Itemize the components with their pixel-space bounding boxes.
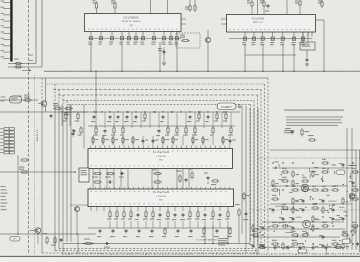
node IC4 pin numbers top row — [91, 150, 93, 153]
resistor R202 above IC2 — [114, 1, 116, 3]
op-amp IC5 deflection box — [88, 189, 234, 207]
resistor R610 row between — [93, 173, 95, 175]
node bottom right extra wires — [285, 232, 293, 234]
resistor R715 under IC5 — [197, 210, 199, 212]
resistor R88 row y231 — [203, 227, 205, 229]
wire right rail x356 — [355, 150, 357, 250]
capacitor C9273208 — [272, 208, 274, 210]
resistor R711 under IC5 — [167, 210, 169, 212]
capacitor C9333208 — [332, 208, 334, 210]
node shield box 3 bottom edge — [59, 248, 253, 250]
resistor R9v293181 — [292, 179, 294, 181]
resistor R50 row2 — [95, 126, 97, 128]
resistor R101 — [23, 99, 25, 101]
resistor R73 under IC5 — [109, 210, 111, 212]
wire bus y112 over IC4 — [60, 111, 240, 113]
capacitor C45 above IC4 — [135, 115, 137, 117]
wire arrow stub y70 — [22, 70, 31, 72]
node note text body — [286, 117, 343, 118]
node shield box 2 top edge — [47, 83, 265, 85]
wire rail x242 — [241, 106, 243, 234]
resistor R212 — [181, 40, 183, 42]
node shield box 6 right edge — [250, 105, 252, 243]
capacitor C120 — [60, 238, 62, 240]
wire ICB columns to bus y243 — [204, 226, 206, 244]
resistor R9303181 — [301, 180, 303, 182]
resistor R714 under IC5 — [189, 210, 191, 212]
wire right rail x359 — [358, 150, 360, 252]
capacitor C9283217 — [282, 217, 284, 219]
wire IC3 left stubs — [221, 18, 227, 20]
wire above IC3 links — [251, 8, 253, 15]
capacitor C35 under IC3 — [292, 37, 295, 40]
node shield box 1 top edge — [33, 77, 268, 79]
capacitor C36 under IC3 — [301, 37, 304, 40]
node shield box 3 left edge lower — [58, 106, 60, 249]
resistor R1a on y63 — [14, 63, 16, 65]
connector CN1 edge bar — [10, 0, 12, 62]
wire left bus y78 full — [0, 77, 33, 79]
resistor R980 right edge — [354, 226, 356, 228]
node shield box 2 right edge — [264, 84, 266, 251]
node shield box 3 top edge — [53, 89, 261, 91]
wire CN2 tail — [17, 155, 19, 234]
capacitor Cz300 — [299, 246, 301, 248]
wire IC3 pin columns to bus — [244, 44, 246, 71]
capacitor C9263226 — [262, 226, 264, 228]
capacitor C130 above CN2 right — [72, 132, 74, 134]
wire rail x254 — [253, 108, 255, 248]
capacitor C87 row y231 — [190, 229, 192, 231]
capacitor C57 row2 — [158, 129, 160, 131]
resistor R9v313217 — [312, 215, 314, 217]
resistor R9v253226 — [252, 224, 254, 226]
capacitor C81 row y231 — [112, 229, 114, 231]
resistor R9323226 — [321, 225, 323, 227]
capacitor C9343217 — [342, 217, 344, 219]
resistor R511 row2 — [194, 126, 196, 128]
resistor R9313208 — [311, 207, 313, 209]
wire IC3 bottom pins — [244, 32, 246, 37]
node delay line DL1 — [10, 96, 22, 103]
connector CN1 pin 6 — [3, 33, 10, 35]
capacitor C43 above IC4 — [117, 115, 119, 117]
capacitor Cz326 — [325, 246, 327, 248]
capacitor C420 — [73, 129, 75, 131]
resistor R6r32 row3 — [112, 136, 114, 138]
resistor R1b on y67 — [14, 66, 16, 68]
capacitor C20 under IC2 — [89, 37, 92, 40]
resistor R421 left of IC4 — [77, 112, 79, 114]
capacitor C27 under IC2 — [152, 37, 155, 40]
capacitor Cz288 — [287, 246, 289, 248]
wire bottom bus y234 — [0, 233, 96, 235]
wire horiz y67 from CN1 — [8, 66, 42, 68]
wire IC4-IC5 pin columns — [92, 169, 94, 190]
resistor R120 — [46, 236, 48, 238]
capacitor C9253244 — [252, 244, 254, 246]
resistor R9273199 — [271, 198, 273, 200]
capacitor C615 — [185, 178, 187, 180]
node pill label ACT filter — [217, 103, 236, 110]
transistor Q902 — [303, 220, 311, 228]
capacitor C716 under IC5 — [204, 213, 206, 215]
resistor R78 under IC5 — [145, 210, 147, 212]
node shield box 1 bottom edge — [42, 252, 260, 254]
wire rail x258 — [257, 108, 259, 252]
node shield box 2 bottom edge — [55, 250, 257, 252]
wire bus y126 over IC4 — [88, 125, 235, 127]
node shield box 6 left edge lower — [70, 106, 72, 242]
resistor R53 row2 — [122, 126, 124, 128]
wire IC2 ladder link y38 — [88, 37, 181, 39]
capacitor C9333217 — [332, 217, 334, 219]
node shield box 1 left edge upper — [41, 78, 43, 106]
resistor R9v313172 — [312, 170, 314, 172]
resistor R9333190 — [331, 189, 333, 191]
node small box left of IC4 — [79, 168, 89, 182]
op-amp IC2 main video IF box — [85, 14, 182, 32]
wire IC5 top pin ticks — [90, 187, 92, 189]
capacitor C80 row y231 — [99, 229, 101, 231]
wire chain x239 — [238, 217, 240, 244]
wire mid right h y150 — [270, 149, 360, 151]
node shield box 5 left edge upper — [66, 101, 68, 107]
resistor R614 — [153, 181, 155, 183]
resistor R301 above IC3 — [251, 0, 253, 2]
wire IC2 right stubs — [181, 18, 186, 20]
resistor R210 between ICs — [189, 4, 191, 6]
wire Q201 collector — [207, 30, 209, 37]
wire IC2 bottom pins — [90, 32, 92, 37]
resistor R59 row2 — [176, 126, 178, 128]
capacitor C89 row y231 — [216, 229, 218, 231]
node corner labels — [29, 55, 33, 56]
resistor R9283208 — [281, 207, 283, 209]
wire dashed rail x28 — [28, 0, 30, 254]
capacitor Cz313 — [312, 246, 314, 248]
resistor R52 row2 — [113, 126, 115, 128]
node shield box 3 left edge upper — [58, 90, 60, 107]
connector CN1 pin 10 — [3, 57, 10, 59]
capacitor C9323235 — [322, 235, 324, 237]
connector CN1 pin 9 — [3, 51, 10, 53]
resistor R9273226 — [271, 225, 273, 227]
resistor R9283172 — [281, 171, 283, 173]
wire IC2 pin columns to bus — [90, 42, 92, 71]
resistor R6r30 row3 — [92, 136, 94, 138]
capacitor C150 on bus y243 — [105, 243, 107, 245]
resistor R9353199 — [351, 198, 353, 200]
resistor R9353226 — [351, 225, 353, 227]
wire riser x36 — [35, 0, 37, 64]
transistor Q102 — [35, 228, 41, 234]
wire Q102 legs — [37, 233, 39, 243]
capacitor C33 under IC3 — [271, 37, 274, 40]
wire bottom heavy rule y256 — [0, 255, 360, 257]
capacitor C712 under IC5 — [174, 213, 176, 215]
wire bottom bus y243 — [63, 243, 250, 245]
resistor R6r38 row3 — [172, 136, 174, 138]
node pill X903 — [298, 249, 307, 253]
resistor R130 — [20, 159, 22, 161]
wire rails to tick band — [245, 238, 247, 253]
capacitor C710 under IC5 — [159, 213, 161, 215]
wire Q101 collector up — [45, 78, 47, 101]
capacitor C910 mid right upper — [291, 130, 293, 132]
capacitor C101 — [50, 114, 52, 116]
capacitor C9323199 — [322, 199, 324, 201]
capacitor C23 under IC2 — [120, 37, 123, 40]
resistor R9v293208 — [292, 206, 294, 208]
resistor R9303235 — [301, 234, 303, 236]
resistor R9273244 — [271, 243, 273, 245]
capacitor C84 row y231 — [151, 229, 153, 231]
node shield box 1 right edge — [267, 78, 269, 253]
resistor R9v283244 — [282, 242, 284, 244]
resistor R911 mid right upper — [308, 139, 310, 141]
wire right rail x347 — [346, 128, 348, 250]
capacitor C9353181 — [352, 181, 354, 183]
wire right rail x352 — [351, 128, 353, 250]
node tick band above rule — [62, 253, 64, 254]
resistor R6r33 row3 — [122, 136, 124, 138]
node cluster mid right — [179, 174, 181, 176]
capacitor C32 under IC3 — [261, 37, 264, 40]
wire IC3 top pins — [257, 0, 259, 15]
capacitor C6r36 row3 — [152, 139, 154, 141]
capacitor C48 above IC4 — [162, 115, 164, 117]
wire Q101 emitter down — [45, 106, 47, 112]
resistor R6r311 row3 — [202, 136, 204, 138]
ground GND2 — [162, 62, 166, 64]
resistor R6r34 row3 — [132, 136, 134, 138]
resistor R79 under IC5 — [152, 210, 154, 212]
resistor R121 — [54, 236, 56, 238]
resistor R6r37 row3 — [162, 136, 164, 138]
wire dotted rail x34 lower — [34, 75, 36, 254]
capacitor C713 under IC5 — [182, 213, 184, 215]
resistor Rz262 — [258, 247, 260, 249]
resistor R641 right of IC5 — [243, 192, 245, 194]
node shield box 5 left edge lower — [66, 106, 68, 242]
capacitor C640 — [245, 212, 247, 214]
capacitor C25 under IC2 — [134, 37, 137, 40]
capacitor C718 under IC5 — [219, 213, 221, 215]
capacitor C24 under IC2 — [127, 37, 130, 40]
resistor R201 above IC2 — [96, 1, 98, 3]
node IC3 pin numbers row — [229, 28, 230, 31]
transistor Q101 — [41, 101, 47, 107]
resistor R330 top right — [321, 0, 323, 2]
node right network of IC3 — [300, 42, 315, 50]
wire riser x42 — [41, 0, 43, 67]
node labels under note — [284, 130, 294, 131]
node shield box 6 top edge — [68, 104, 251, 106]
connector CN1 pin 4 — [3, 20, 10, 22]
resistor R103 — [64, 108, 66, 110]
wire horiz y63 from CN1 — [8, 63, 36, 65]
node pill X901 — [336, 170, 345, 175]
capacitor C34 under IC3 — [281, 37, 284, 40]
resistor R414 above IC4 — [216, 112, 218, 114]
resistor R9v343199 — [342, 197, 344, 199]
resistor R75 under IC5 — [123, 210, 125, 212]
resistor R9313190 — [311, 189, 313, 191]
resistor R415 above IC4 — [225, 112, 227, 114]
resistor R6r313 row3 — [222, 136, 224, 138]
node IC2 pin numbers row — [88, 28, 89, 31]
capacitor C42 above IC4 — [109, 115, 111, 117]
wire right cluster bus y229 — [253, 228, 345, 230]
resistor R6r310 row3 — [192, 136, 194, 138]
resistor R9v273181 — [272, 179, 274, 181]
resistor R9323163 — [321, 162, 323, 164]
resistor R9253235 — [251, 234, 253, 236]
node shield box 6 left edge upper — [70, 105, 72, 107]
wire IC3 sub-bus y55 — [245, 54, 296, 56]
capacitor C44 above IC4 — [126, 115, 128, 117]
ground GND1 — [305, 63, 309, 65]
wire dotted h y210 right — [252, 209, 360, 211]
resistor R9323190 — [321, 189, 323, 191]
resistor R58 row2 — [167, 126, 169, 128]
wire stub y172 — [0, 171, 75, 173]
capacitor C9293226 — [292, 226, 294, 228]
transistor Q901 — [301, 184, 309, 192]
wire vert x62 cluster — [61, 105, 63, 127]
node shield box 4 top edge — [58, 94, 258, 96]
capacitor C77 under IC5 — [137, 213, 139, 215]
resistor R513 row2 — [212, 126, 214, 128]
wire vert x84 shield to IC4 — [83, 105, 85, 149]
resistor R510 row2 — [185, 126, 187, 128]
wire Q101 base — [38, 103, 41, 105]
wire IC4 top pin ticks — [90, 146, 92, 149]
connector CN2 terminal strip — [4, 128, 9, 131]
wire top stubs between ICs — [189, 0, 191, 6]
node IC4 pin numbers bottom row — [91, 164, 93, 167]
capacitor C82 row y231 — [125, 229, 127, 231]
capacitor C330 — [306, 58, 308, 60]
node IC5 pin numbers bottom row — [91, 202, 93, 205]
wire bus under IC5 y228 — [88, 227, 232, 229]
resistor R9353190 — [351, 189, 353, 191]
wire right cluster h-wires — [272, 167, 352, 169]
capacitor C210 under IC2 — [175, 37, 178, 40]
wire dotted h y158 right — [258, 157, 360, 159]
node pill X902 — [342, 239, 351, 244]
wire rail x250 — [249, 108, 251, 244]
resistor R150 on bus y243 — [84, 243, 86, 245]
resistor R303 above IC3 — [263, 0, 265, 2]
node IC2 sub chain x164 — [163, 47, 165, 62]
resistor R717 under IC5 — [212, 210, 214, 212]
node IC5 pin numbers top row — [91, 190, 93, 193]
resistor R85 row y231 — [164, 227, 166, 229]
capacitor C6r314 row3 — [229, 139, 231, 141]
resistor R302 above IC3 — [299, 0, 301, 1]
wire vert x96 bus to cluster — [95, 71, 97, 112]
wire rail x246 — [245, 106, 247, 238]
node left voltage label column — [1, 186, 6, 187]
resistor R9v343244 — [342, 242, 344, 244]
connector CN1 pin 7 — [3, 39, 10, 41]
capacitor C9303199 — [302, 199, 304, 201]
node dashed alignment box — [176, 33, 200, 48]
wire vert x70 cluster — [69, 105, 71, 127]
resistor R422 — [80, 126, 82, 128]
resistor R616 — [211, 180, 213, 182]
capacitor C51 row2 — [104, 129, 106, 131]
node shield box 5 top edge — [63, 100, 254, 102]
wire columns row3 to IC4 — [92, 136, 94, 145]
transistor Q201 — [205, 37, 210, 42]
wire IC5 bottom pin columns — [90, 207, 92, 212]
resistor R9v293199 — [292, 197, 294, 199]
wire stubs to tick band — [62, 244, 64, 254]
op-amp IC4 signal processor box — [88, 149, 233, 169]
capacitor C413 above IC4 — [207, 115, 209, 117]
resistor R9293190 — [291, 189, 293, 191]
wire left cluster links — [0, 111, 88, 113]
capacitor C29 under IC2 — [169, 37, 172, 40]
resistor R810 row y231 — [229, 227, 231, 229]
wire column links y112-126 — [95, 112, 97, 126]
node bottom margin strip — [0, 257, 360, 262]
capacitor C26 under IC2 — [141, 37, 144, 40]
transistor Q903 — [349, 193, 355, 199]
node shield box 4 right edge — [257, 95, 259, 246]
node pill label P101 — [10, 237, 20, 242]
capacitor C28 under IC2 — [162, 37, 165, 40]
node shield box 5 right edge — [253, 101, 255, 245]
capacitor C9323244 — [322, 244, 324, 246]
node shield box 4 left edge lower — [62, 106, 64, 242]
capacitor C9293217 — [292, 217, 294, 219]
connector CN1 pin 5 — [3, 26, 10, 28]
node shield box 1 left edge lower — [41, 106, 43, 253]
capacitor C22 under IC2 — [110, 37, 113, 40]
resistor R615 between ICs right — [191, 171, 193, 173]
wire main bus y71 — [44, 70, 360, 72]
resistor R9323172 — [321, 171, 323, 173]
resistor R102 — [53, 108, 55, 110]
resistor R76 under IC5 — [130, 210, 132, 212]
connector CN1 pin 2 — [3, 8, 10, 10]
capacitor C83 row y231 — [138, 229, 140, 231]
capacitor C30 under IC3 — [243, 37, 246, 40]
capacitor C301 above IC3 — [267, 4, 269, 6]
resistor R611 — [106, 173, 108, 175]
wire IC2 top pins — [96, 10, 98, 14]
resistor R9v293172 — [292, 170, 294, 172]
capacitor C611 — [108, 181, 110, 183]
resistor R9333244 — [331, 243, 333, 245]
op-amp IC3 chroma box — [227, 15, 316, 33]
node CN1 bottom labels — [1, 97, 6, 98]
resistor R9273190 — [271, 189, 273, 191]
resistor R719 under IC5 — [227, 210, 229, 212]
wire R302 to IC3 — [299, 7, 301, 15]
capacitor C6r35 row3 — [142, 139, 144, 141]
resistor R9293244 — [291, 243, 293, 245]
resistor R110 on y172 — [20, 171, 22, 173]
node note text heading — [284, 110, 344, 111]
resistor Rz338 — [334, 247, 336, 249]
resistor R9303190 — [301, 189, 303, 191]
resistor R412 above IC4 — [198, 112, 200, 114]
